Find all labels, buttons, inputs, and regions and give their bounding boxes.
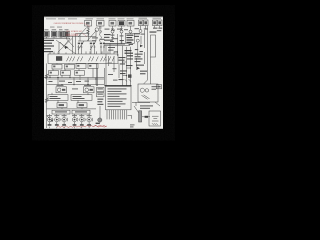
resistor R2 bbox=[45, 98, 48, 103]
battery BT1 bbox=[149, 111, 161, 126]
transistor Q4 bbox=[72, 117, 76, 121]
wire to pump bbox=[150, 57, 152, 84]
text labels mid band bbox=[49, 81, 90, 83]
fuse F6 pair bbox=[139, 20, 143, 26]
wire bbox=[104, 45, 130, 47]
wire vertical bbox=[72, 36, 74, 54]
coil relay CR1 bbox=[56, 87, 67, 93]
extra verticals center bbox=[110, 36, 122, 54]
wire verticals right bbox=[137, 52, 148, 80]
wire from F5 bbox=[130, 26, 132, 30]
wire under connectors bbox=[44, 37, 70, 39]
drops from U2 bbox=[53, 63, 93, 77]
Q inner dots bbox=[49, 119, 90, 121]
splice S10 bbox=[128, 115, 132, 118]
wire bbox=[134, 102, 139, 113]
junction dots band bbox=[49, 77, 80, 85]
Q top legs bbox=[50, 114, 90, 117]
connector C100 block b bbox=[51, 31, 57, 37]
red handwritten note bbox=[57, 125, 107, 128]
ballast resistor R4 bbox=[72, 110, 90, 114]
ladder rungs bbox=[123, 62, 131, 76]
wire elbow bbox=[144, 80, 148, 84]
wire elbow low bbox=[78, 40, 96, 42]
capacitor C11 bbox=[120, 41, 123, 42]
ground hatch bbox=[152, 123, 158, 125]
wire vertical bbox=[75, 34, 77, 55]
pin ticks bbox=[125, 79, 132, 82]
wire diagonal d6 bbox=[90, 41, 96, 50]
transistor Q2 bbox=[55, 117, 59, 121]
connector id labels bbox=[45, 28, 69, 31]
fuse F7 pair bbox=[153, 20, 157, 26]
U2 top pin stubs bbox=[50, 52, 66, 54]
ground bus G1 bbox=[46, 63, 48, 128]
red leader 1 bbox=[84, 23, 90, 26]
pilot text marks bbox=[144, 28, 162, 33]
solenoid SW1 bbox=[139, 111, 142, 122]
ignition coil T1 bbox=[98, 118, 102, 122]
wire vertical bbox=[79, 34, 81, 42]
wire label texture top center bbox=[105, 28, 145, 52]
wire diagonal d3 bbox=[66, 38, 74, 47]
resistor R1 bbox=[45, 74, 48, 79]
fuse F1 bbox=[85, 20, 92, 26]
label row bbox=[50, 26, 62, 29]
wire bbox=[155, 102, 160, 106]
choke scribble bbox=[100, 30, 102, 42]
transistor Q6 bbox=[87, 117, 91, 121]
connector C206 bbox=[75, 71, 85, 76]
bus wire 1 bbox=[44, 77, 104, 79]
connector pins C2 bbox=[90, 45, 96, 54]
connector C201 bbox=[52, 64, 62, 69]
wires from F7 bbox=[155, 26, 160, 28]
connector pins C1 bbox=[78, 45, 83, 54]
wire vertical long bbox=[147, 26, 149, 58]
connector C100 block a bbox=[44, 31, 49, 37]
cyl labels bbox=[47, 114, 92, 117]
connector C205 bbox=[61, 71, 71, 76]
diode D2 bbox=[140, 45, 143, 48]
label bbox=[57, 85, 92, 89]
wire vertical bbox=[105, 46, 107, 86]
lamp L1 bbox=[95, 28, 99, 32]
lamp L3 bbox=[120, 30, 123, 33]
red underline bbox=[66, 35, 78, 37]
wire from F2 bbox=[99, 26, 101, 34]
bus wire low bbox=[47, 108, 97, 110]
HEGO cluster bbox=[125, 50, 134, 56]
plug lead stubs bbox=[50, 127, 90, 129]
relay K1 block bbox=[125, 33, 134, 43]
wire diagonal d5 bbox=[78, 41, 84, 50]
schematic page bbox=[44, 17, 163, 129]
gauge text bbox=[130, 124, 135, 127]
net name rows left bbox=[44, 40, 54, 52]
transistor Q3 bbox=[62, 117, 66, 121]
wire from F3 bbox=[112, 26, 114, 30]
coil relay CR2 bbox=[84, 87, 95, 93]
wire diagonal bbox=[87, 31, 96, 41]
red note 1 bbox=[54, 22, 85, 25]
branch wires center bbox=[109, 56, 120, 78]
ballast resistor R3 bbox=[52, 110, 70, 114]
connector C207 bbox=[76, 64, 86, 69]
connector C204 bbox=[49, 71, 59, 76]
connector C302 bbox=[77, 103, 87, 108]
scan noise bbox=[0, 0, 1, 1]
connector C202 bbox=[65, 64, 75, 69]
wire from F4 bbox=[121, 26, 123, 30]
bus wire 3 bbox=[47, 84, 105, 86]
fuse F4 bbox=[118, 20, 125, 26]
label marks bbox=[135, 49, 143, 57]
wire vertical bbox=[138, 30, 145, 56]
drops bbox=[52, 93, 88, 109]
junction dots bbox=[57, 77, 96, 86]
U2 pin stubs upper bbox=[86, 51, 114, 54]
wire from F1 bbox=[87, 26, 89, 29]
bus wire 2 bbox=[47, 78, 105, 80]
wire run bbox=[132, 102, 150, 104]
wire diagonal bbox=[78, 28, 87, 38]
wire diagonal d4 bbox=[64, 38, 70, 46]
red note tail loop bbox=[94, 125, 106, 127]
page header text bbox=[46, 17, 77, 20]
wire cross diagonal bbox=[58, 39, 72, 53]
diode D1 bbox=[65, 46, 68, 49]
connector C301 bbox=[57, 103, 67, 108]
red note 2 bbox=[66, 30, 83, 36]
wire diagonal bbox=[60, 42, 66, 49]
fuse rating labels bbox=[87, 26, 103, 30]
shield box bbox=[151, 35, 156, 57]
black backdrop bbox=[0, 0, 300, 188]
resistor R5 bbox=[87, 29, 90, 37]
PCM harness comb bbox=[107, 110, 127, 120]
red leader 2 bbox=[83, 34, 88, 37]
lamp L2 bbox=[111, 30, 114, 33]
spark plug feet bbox=[48, 124, 91, 126]
wire vertical bbox=[88, 30, 90, 41]
mid verticals bbox=[113, 33, 131, 38]
lamp L4 bbox=[129, 30, 132, 33]
pump tag bbox=[156, 85, 161, 89]
connector stubs bbox=[47, 37, 67, 38]
wires from F6 bbox=[141, 26, 146, 30]
lamp L5 bbox=[139, 30, 142, 33]
module M2 bbox=[71, 95, 92, 101]
connector C203 bbox=[88, 64, 98, 69]
wire elbow bbox=[76, 33, 89, 35]
junction dots center bbox=[105, 51, 131, 76]
pin label 33 pairs bbox=[78, 43, 105, 45]
wire long diagonal bbox=[56, 40, 76, 54]
wire vertical bbox=[58, 42, 60, 54]
diode D3 bbox=[137, 67, 140, 70]
companion contacts bbox=[52, 118, 92, 122]
fuse F2 bbox=[97, 20, 105, 26]
wire long bbox=[60, 30, 96, 41]
harness verticals center bbox=[123, 46, 131, 86]
page top edge shadow bbox=[44, 16, 163, 19]
fuse F3 bbox=[109, 20, 116, 26]
transistor Q1 bbox=[47, 117, 51, 121]
connector C100 block d bbox=[64, 31, 69, 37]
module M1 bbox=[48, 95, 68, 101]
bus drops bbox=[50, 75, 96, 84]
connector C100 block c bbox=[59, 31, 63, 37]
wire vertical bbox=[117, 34, 119, 56]
distributor arrow bbox=[47, 116, 53, 122]
sensor S1 bbox=[136, 39, 139, 42]
fuse F5 bbox=[127, 20, 134, 26]
harness id text cluster bbox=[92, 37, 105, 41]
switch contacts inside U2 bbox=[67, 57, 115, 62]
connector pins C3 bbox=[100, 45, 105, 54]
transistor Q5 bbox=[80, 117, 84, 121]
Q bottom legs bbox=[50, 122, 90, 125]
capacitor C10 bbox=[111, 38, 114, 39]
supply label row bbox=[86, 18, 162, 20]
splice crosses bbox=[111, 28, 122, 30]
